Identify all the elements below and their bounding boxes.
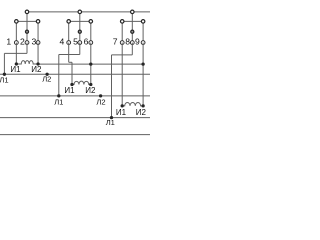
svg-text:4: 4 <box>60 36 65 46</box>
svg-text:8: 8 <box>125 36 130 46</box>
svg-text:2: 2 <box>20 36 25 46</box>
svg-text:И1: И1 <box>64 86 75 95</box>
svg-text:Л1: Л1 <box>106 118 115 127</box>
svg-text:Л2: Л2 <box>42 75 51 84</box>
svg-text:7: 7 <box>113 36 118 46</box>
svg-text:Л2: Л2 <box>96 98 105 107</box>
svg-text:Л1: Л1 <box>54 98 63 107</box>
svg-text:6: 6 <box>84 36 89 46</box>
svg-text:3: 3 <box>31 36 36 46</box>
svg-text:Л1: Л1 <box>0 76 9 85</box>
svg-text:И2: И2 <box>31 65 42 74</box>
svg-text:И2: И2 <box>85 86 96 95</box>
svg-text:И2: И2 <box>136 108 147 117</box>
svg-text:И1: И1 <box>116 108 127 117</box>
svg-text:1: 1 <box>6 36 11 46</box>
svg-text:5: 5 <box>73 36 78 46</box>
svg-text:И1: И1 <box>10 65 21 74</box>
svg-text:9: 9 <box>135 36 140 46</box>
